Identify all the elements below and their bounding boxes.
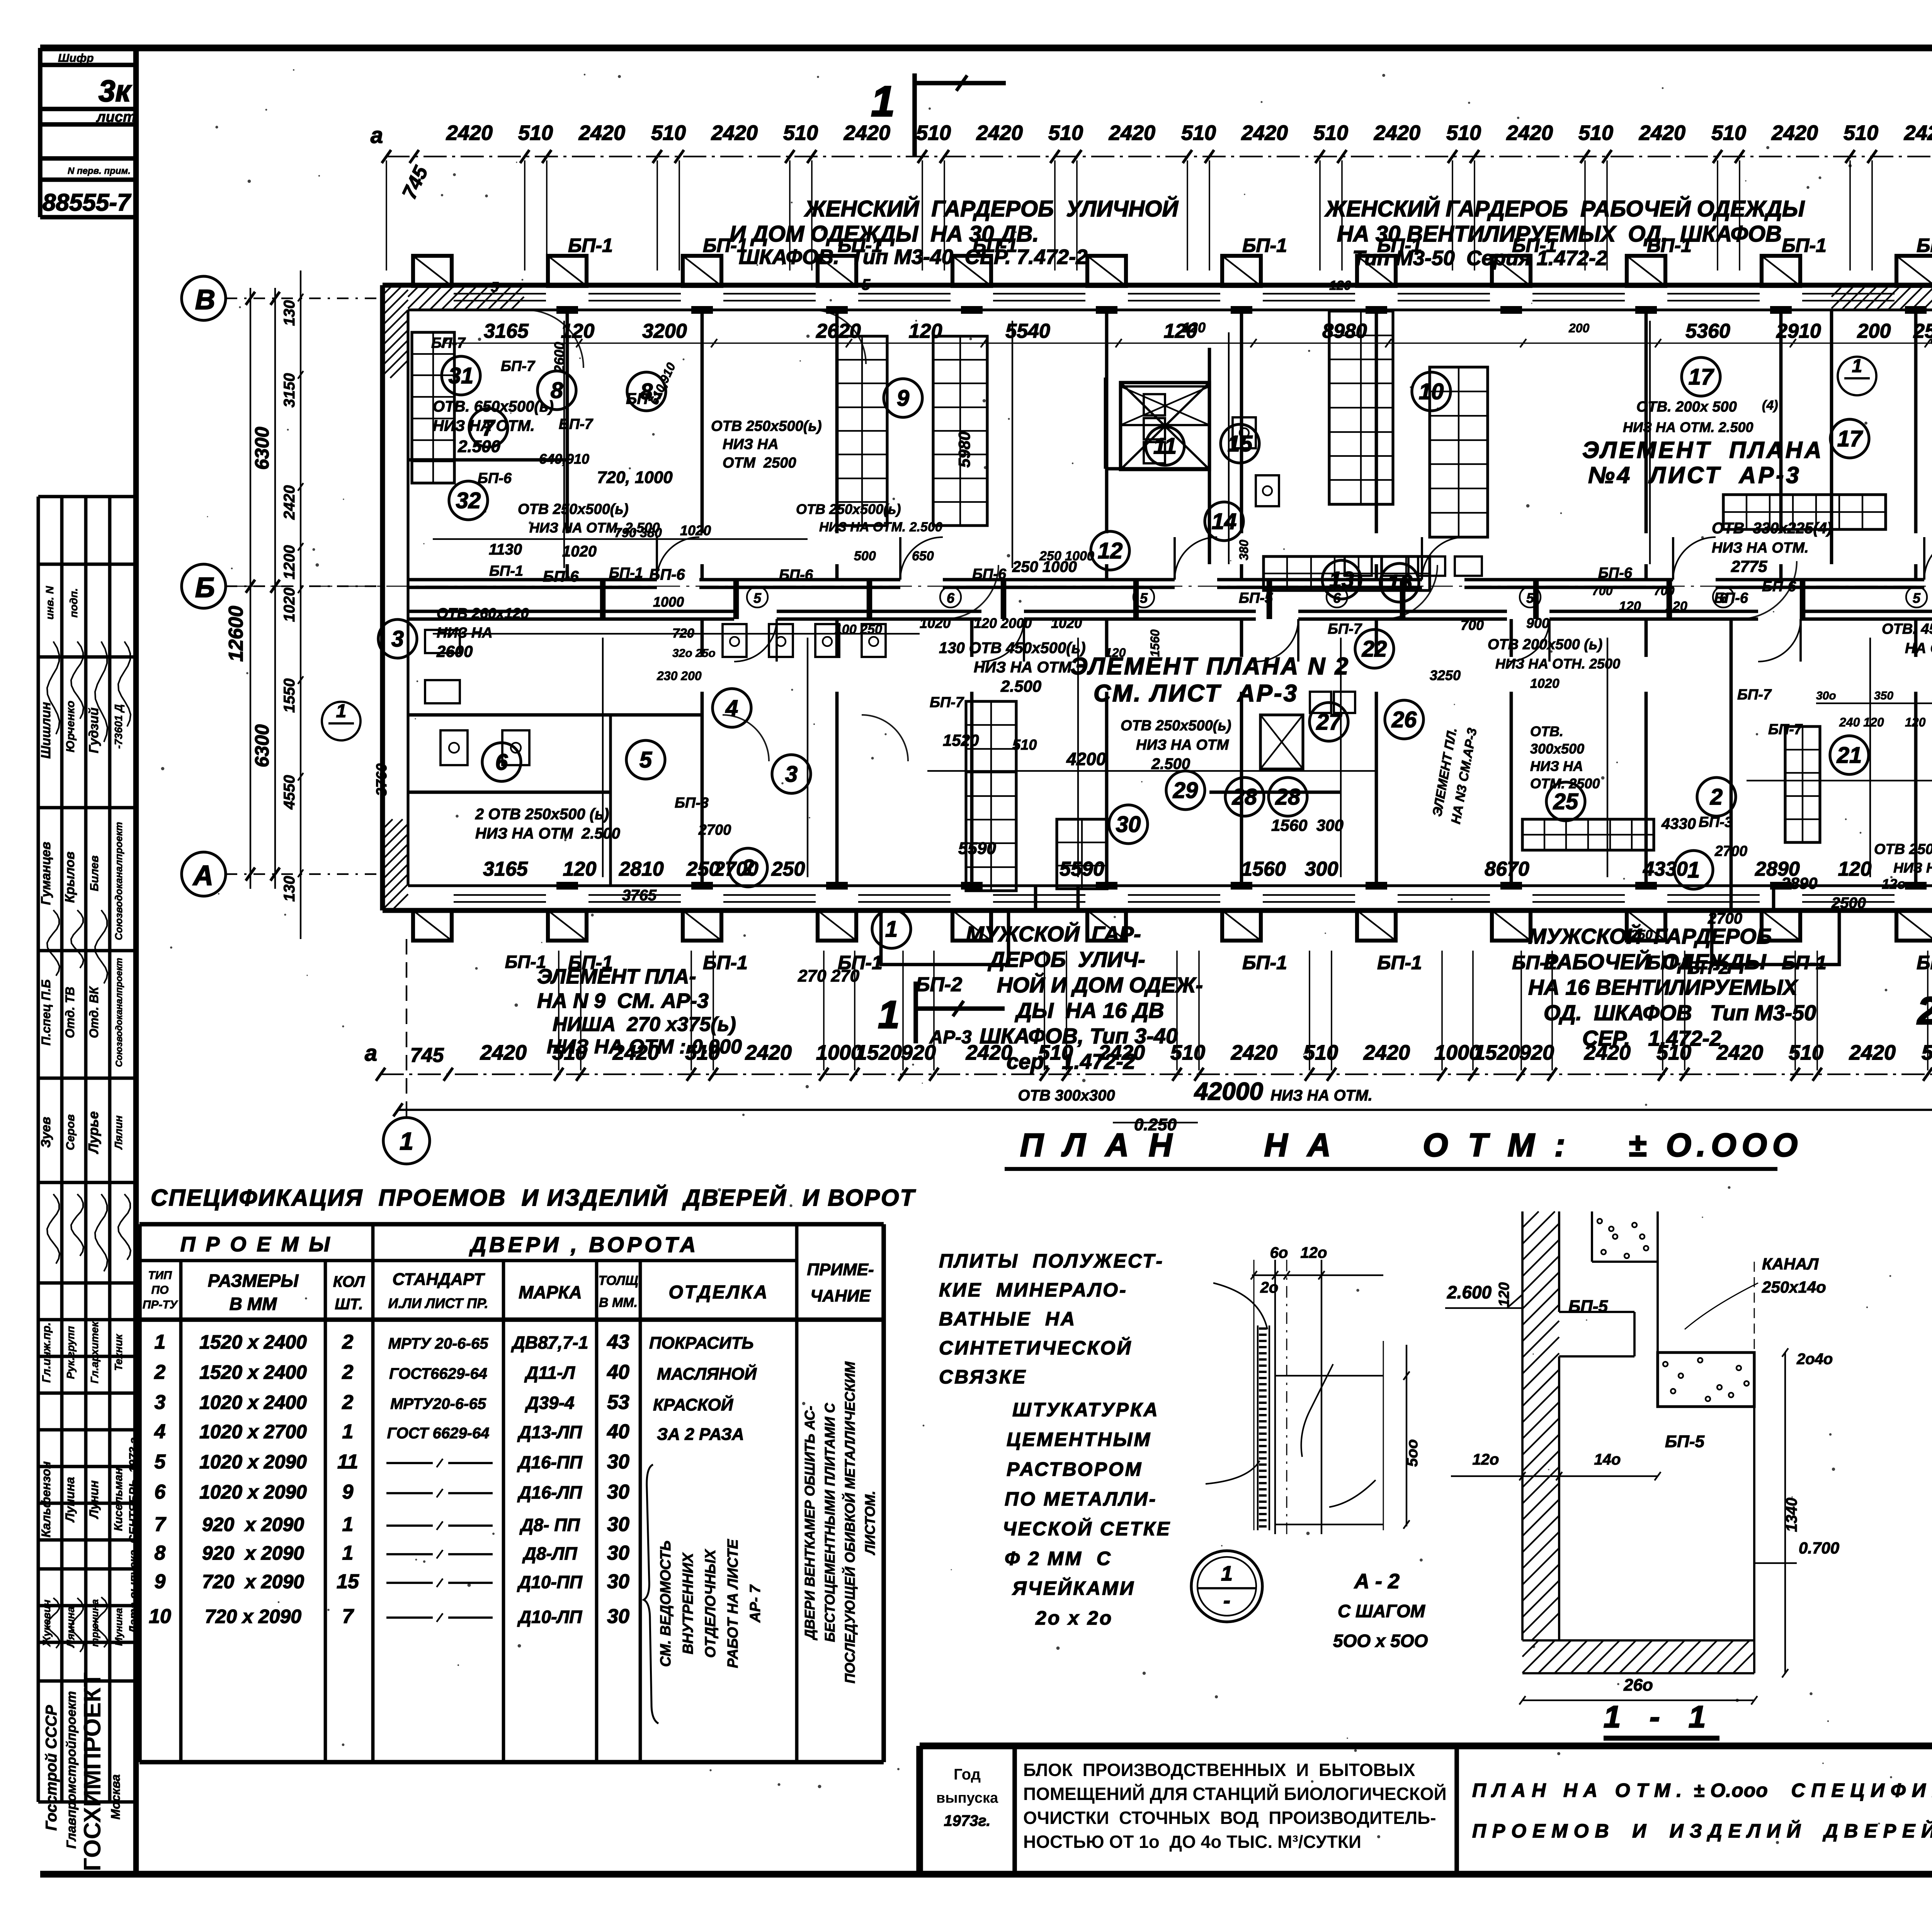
- svg-text:15: 15: [337, 1570, 359, 1593]
- svg-text:3165: 3165: [484, 320, 529, 342]
- svg-text:НИША 270 х375(ь): НИША 270 х375(ь): [553, 1013, 736, 1036]
- svg-text:СЕР. 1.472-2: СЕР. 1.472-2: [1582, 1026, 1721, 1050]
- svg-text:РАБОЧЕЙ ОДЕЖДЫ: РАБОЧЕЙ ОДЕЖДЫ: [1544, 949, 1767, 974]
- svg-text:1560: 1560: [1148, 629, 1162, 657]
- svg-text:1130: 1130: [489, 541, 522, 558]
- svg-text:Д16-ПП: Д16-ПП: [517, 1452, 583, 1472]
- svg-text:2420: 2420: [1506, 121, 1553, 145]
- axis circle V: [182, 276, 226, 320]
- svg-text:2: 2: [1710, 784, 1723, 810]
- svg-text:БП-7: БП-7: [559, 416, 594, 432]
- svg-text:1550: 1550: [281, 679, 298, 713]
- svg-text:Главпромстройпроект: Главпромстройпроект: [64, 1691, 79, 1849]
- svg-text:2420: 2420: [1716, 1041, 1763, 1064]
- svg-text:1: 1: [871, 78, 895, 125]
- section 1-1 pier speckled: [1658, 1353, 1754, 1407]
- svg-text:3: 3: [155, 1391, 166, 1414]
- svg-text:30: 30: [1116, 812, 1141, 837]
- svg-text:5: 5: [1140, 590, 1148, 606]
- svg-text:13: 13: [1329, 567, 1354, 592]
- svg-text:Д10-ЛП: Д10-ЛП: [517, 1607, 582, 1627]
- svg-text:НА 30 ВЕНТИЛИРУЕМЫХ ОД. ШКАФ: НА 30 ВЕНТИЛИРУЕМЫХ ОД. ШКАФОВ: [1337, 221, 1782, 247]
- svg-text:МРТУ20-6-65: МРТУ20-6-65: [390, 1395, 486, 1412]
- corner blobs at partitions: [556, 306, 578, 314]
- svg-text:40: 40: [607, 1361, 629, 1383]
- entrance tambour right: [1712, 910, 1839, 965]
- svg-text:250: 250: [771, 858, 805, 880]
- svg-text:6300: 6300: [251, 427, 273, 470]
- svg-text:НИЗ НА ОТМ 2.500: НИЗ НА ОТМ 2.500: [475, 825, 620, 842]
- svg-text:1020: 1020: [281, 588, 298, 622]
- svg-text:120: 120: [1665, 599, 1687, 614]
- svg-text:2420: 2420: [281, 485, 298, 520]
- locker grid room 30 b: [1057, 819, 1107, 889]
- svg-text:Мунина: Мунина: [113, 1608, 124, 1646]
- svg-text:Юрченко: Юрченко: [64, 701, 77, 752]
- svg-text:2.600: 2.600: [1447, 1282, 1492, 1302]
- svg-text:10: 10: [1419, 379, 1444, 404]
- svg-text:1560 300: 1560 300: [1271, 816, 1344, 834]
- svg-text:10: 10: [149, 1605, 171, 1628]
- svg-text:Ф 2 ММ С: Ф 2 ММ С: [1005, 1548, 1112, 1569]
- svg-text:БП-7: БП-7: [431, 335, 466, 351]
- svg-text:2700: 2700: [698, 822, 731, 838]
- svg-text:0.700: 0.700: [1799, 1539, 1839, 1557]
- svg-text:ШТУКАТУРКА: ШТУКАТУРКА: [1012, 1399, 1159, 1421]
- svg-text:200: 200: [1857, 320, 1891, 342]
- detail node circle 1: [1191, 1551, 1262, 1622]
- svg-text:П.спец П.Б: П.спец П.Б: [39, 979, 53, 1045]
- svg-text:120: 120: [1496, 1282, 1512, 1307]
- section 1-1 wall: [1521, 1211, 1524, 1640]
- svg-text:5: 5: [155, 1451, 166, 1473]
- svg-text:1020: 1020: [920, 615, 951, 631]
- svg-text:ОТВ 250х500(ь): ОТВ 250х500(ь): [1121, 718, 1231, 734]
- svg-text:250 1000: 250 1000: [1039, 549, 1094, 563]
- corridor upper wall: [408, 578, 657, 582]
- svg-text:1: 1: [342, 1421, 354, 1443]
- svg-text:8980: 8980: [1322, 320, 1367, 342]
- svg-text:510: 510: [518, 121, 553, 145]
- svg-text:43: 43: [607, 1331, 629, 1353]
- svg-text:БП-6: БП-6: [478, 470, 512, 487]
- svg-text:БП-5: БП-5: [1239, 590, 1273, 606]
- svg-text:900: 900: [1526, 615, 1549, 631]
- svg-text:Год: Год: [954, 1766, 981, 1783]
- svg-text:Д16-ЛП: Д16-ЛП: [517, 1482, 582, 1502]
- room circle 5: [626, 740, 665, 779]
- shower stalls room 27: [1310, 692, 1331, 713]
- svg-text:А: А: [192, 860, 213, 891]
- svg-text:ОТВ 260х120: ОТВ 260х120: [437, 606, 529, 622]
- left dim chain 6300/6300: [274, 288, 276, 889]
- svg-text:МУЖСКОЙ ГАР-: МУЖСКОЙ ГАР-: [966, 922, 1141, 946]
- svg-text:270 270: 270 270: [798, 966, 860, 985]
- svg-text:7: 7: [155, 1513, 167, 1536]
- svg-text:ШКАФОВ, Тип 3-40: ШКАФОВ, Тип 3-40: [980, 1024, 1178, 1048]
- locker grid room 30: [966, 701, 1016, 891]
- room circle 4: [713, 689, 751, 727]
- room circle 1: [1674, 851, 1713, 889]
- svg-text:9: 9: [342, 1481, 354, 1503]
- svg-text:230 200: 230 200: [656, 669, 702, 683]
- svg-text:3250: 3250: [1430, 667, 1461, 683]
- benches room 25: [1522, 819, 1654, 850]
- svg-text:14о: 14о: [1594, 1451, 1621, 1468]
- room circle 21: [1830, 736, 1869, 774]
- svg-text:120: 120: [1329, 278, 1351, 293]
- svg-text:2775: 2775: [1731, 557, 1767, 575]
- svg-text:300: 300: [1305, 858, 1338, 880]
- svg-text:3к: 3к: [99, 74, 132, 108]
- sheet frame left border: [133, 48, 139, 1874]
- svg-text:510: 510: [1048, 121, 1083, 145]
- svg-text:ПРИМЕ-: ПРИМЕ-: [807, 1260, 874, 1279]
- svg-text:130: 130: [281, 876, 298, 902]
- room circle 26: [1385, 700, 1423, 739]
- svg-text:В ММ.: В ММ.: [599, 1295, 638, 1310]
- svg-text:НИЗ НА ОТМ.: НИЗ НА ОТМ.: [974, 659, 1076, 676]
- wall stubs along corridor: [600, 580, 606, 619]
- svg-text:8670: 8670: [1485, 858, 1529, 880]
- svg-text:Союзводоканалпроект: Союзводоканалпроект: [113, 822, 124, 940]
- svg-text:2600: 2600: [436, 642, 473, 660]
- svg-text:ОТМ 2500: ОТМ 2500: [723, 455, 796, 471]
- svg-text:1020 х 2700: 1020 х 2700: [199, 1421, 307, 1443]
- axis circle B: [182, 564, 226, 608]
- svg-text:Лунина: Лунина: [63, 1477, 77, 1523]
- top wall piers: [413, 256, 452, 286]
- room circle 29: [1166, 771, 1205, 810]
- room circle 10: [1412, 372, 1451, 411]
- svg-text:лист: лист: [96, 109, 136, 125]
- room circle 2: [1697, 778, 1736, 816]
- svg-text:7: 7: [342, 1605, 354, 1628]
- svg-text:НИЗ НА ОТМ: НИЗ НА ОТМ: [1136, 737, 1229, 753]
- svg-text:5: 5: [862, 276, 871, 293]
- signature squiggles left column: [47, 641, 60, 734]
- svg-text:2.500: 2.500: [457, 437, 501, 456]
- top dimension chain: [386, 156, 1932, 157]
- room circle 13: [1322, 560, 1361, 599]
- svg-text:30: 30: [607, 1513, 629, 1536]
- svg-text:5: 5: [491, 279, 499, 295]
- svg-text:32: 32: [456, 488, 481, 513]
- svg-text:12600: 12600: [225, 606, 247, 662]
- svg-text:1: 1: [885, 917, 898, 942]
- svg-text:№4 ЛИСТ АР-3: №4 ЛИСТ АР-3: [1588, 462, 1801, 488]
- svg-text:Москва: Москва: [109, 1774, 122, 1820]
- svg-text:1: 1: [1687, 857, 1700, 883]
- svg-text:ЦЕМЕНТНЫМ: ЦЕМЕНТНЫМ: [1007, 1429, 1151, 1450]
- svg-text:ОТВ. 450х500 (ь) НИЗ: ОТВ. 450х500 (ь) НИЗ: [1882, 621, 1932, 637]
- svg-text:ЖЕНСКИЙ ГАРДЕРОБ РАБОЧЕЙ ОДЕЖ: ЖЕНСКИЙ ГАРДЕРОБ РАБОЧЕЙ ОДЕЖДЫ: [1324, 196, 1805, 221]
- svg-text:510: 510: [1012, 737, 1037, 753]
- sanitary fixtures rooms 3-4: [723, 624, 747, 657]
- svg-text:П Л А Н Н А О Т М . ± О.о: П Л А Н Н А О Т М . ± О.ооо С П Е Ц И Ф …: [1472, 1780, 1932, 1801]
- svg-text:510: 510: [783, 121, 818, 145]
- svg-text:510: 510: [1313, 121, 1348, 145]
- svg-text:700: 700: [1654, 584, 1675, 598]
- svg-text:250: 250: [1630, 927, 1653, 942]
- svg-text:17: 17: [1837, 426, 1863, 451]
- svg-text:2 ОТВ 250х500 (ь): 2 ОТВ 250х500 (ь): [475, 806, 609, 823]
- small interior ticks rows: [441, 339, 447, 347]
- svg-text:1: 1: [155, 1331, 166, 1353]
- svg-text:НИЗ НА ОТМ.: НИЗ НА ОТМ.: [1712, 540, 1809, 556]
- svg-text:НИЗ НА ОТН. 2500: НИЗ НА ОТН. 2500: [1495, 656, 1620, 672]
- svg-text:МАРКА: МАРКА: [519, 1282, 582, 1302]
- left stamp column grid: [37, 497, 40, 1802]
- svg-text:НИЗ НА: НИЗ НА: [437, 625, 493, 641]
- spec table frame: [139, 1222, 884, 1227]
- svg-text:1: 1: [342, 1542, 354, 1564]
- svg-text:30: 30: [607, 1542, 629, 1564]
- svg-text:720 х 2090: 720 х 2090: [202, 1571, 304, 1592]
- svg-text:300х500: 300х500: [1530, 741, 1584, 757]
- svg-text:БП-1: БП-1: [703, 952, 748, 973]
- svg-text:120: 120: [1905, 715, 1926, 729]
- svg-text:6: 6: [155, 1481, 166, 1503]
- svg-text:ШКАФОВ. Тип М3-40 СЕР. 7.472: ШКАФОВ. Тип М3-40 СЕР. 7.472-2: [739, 245, 1087, 269]
- svg-text:120: 120: [561, 320, 595, 342]
- svg-text:5590: 5590: [958, 839, 996, 858]
- svg-text:МАСЛЯНОЙ: МАСЛЯНОЙ: [657, 1364, 757, 1383]
- svg-text:БП-6: БП-6: [1598, 565, 1633, 581]
- svg-text:Лурье: Лурье: [85, 1111, 101, 1155]
- svg-text:БП-6: БП-6: [543, 568, 579, 585]
- svg-text:2910: 2910: [1776, 320, 1821, 342]
- svg-text:СИНТЕТИЧЕСКОЙ: СИНТЕТИЧЕСКОЙ: [939, 1337, 1132, 1359]
- svg-text:250х14о: 250х14о: [1762, 1278, 1826, 1296]
- svg-text:22: 22: [1362, 636, 1387, 662]
- svg-text:С ШАГОМ: С ШАГОМ: [1338, 1601, 1426, 1621]
- svg-text:920: 920: [1519, 1041, 1554, 1064]
- svg-text:26о: 26о: [1623, 1676, 1653, 1695]
- room circle 6: [482, 743, 521, 781]
- svg-text:АР- 7: АР- 7: [747, 1584, 764, 1623]
- room circle 11: [1146, 427, 1184, 465]
- svg-text:6300: 6300: [251, 724, 273, 767]
- svg-text:4330: 4330: [1643, 858, 1688, 880]
- svg-text:5ОО х 5ОО: 5ОО х 5ОО: [1333, 1631, 1428, 1651]
- element plan marker 1b: [1838, 357, 1876, 395]
- svg-text:5: 5: [1913, 590, 1921, 606]
- svg-text:БП-5: БП-5: [1568, 1297, 1608, 1316]
- svg-text:510: 510: [1844, 121, 1878, 145]
- svg-text:2: 2: [1917, 989, 1932, 1033]
- svg-text:БП-7: БП-7: [501, 358, 536, 374]
- svg-text:1: 1: [400, 1127, 413, 1155]
- svg-text:9: 9: [155, 1570, 166, 1593]
- svg-text:ЭЛЕМЕНТ ПЛАНА: ЭЛЕМЕНТ ПЛАНА: [1582, 437, 1824, 463]
- svg-text:9: 9: [897, 386, 909, 411]
- locker grid room 10 a: [1329, 311, 1393, 504]
- overall 42000 line: [398, 1109, 1932, 1111]
- svg-text:1: 1: [1221, 1562, 1233, 1585]
- svg-text:ПЛИТЫ ПОЛУЖЕСТ-: ПЛИТЫ ПОЛУЖЕСТ-: [939, 1250, 1164, 1272]
- svg-text:510: 510: [1711, 121, 1746, 145]
- svg-text:ПОСЛЕДУЮЩЕЙ ОБИВКОЙ МЕТАЛЛИЧЕС: ПОСЛЕДУЮЩЕЙ ОБИВКОЙ МЕТАЛЛИЧЕСКИМ: [842, 1361, 858, 1684]
- section 1-1 bottom slab: [1522, 1639, 1754, 1642]
- svg-text:2890: 2890: [1781, 874, 1817, 892]
- svg-text:2700: 2700: [713, 858, 759, 880]
- interior dim lines upper rooms: [433, 538, 808, 540]
- svg-text:НИЗ НА ОТМ: НИЗ НА ОТМ: [1893, 860, 1932, 876]
- svg-text:2620: 2620: [816, 320, 861, 342]
- scan speckles: [969, 338, 972, 340]
- svg-text:2700: 2700: [1714, 843, 1748, 859]
- svg-text:40: 40: [607, 1421, 629, 1443]
- svg-text:700: 700: [1592, 584, 1613, 598]
- svg-text:ЛИСТОМ.: ЛИСТОМ.: [862, 1491, 878, 1556]
- svg-text:11: 11: [337, 1451, 358, 1473]
- svg-text:Гл.инж.пр.: Гл.инж.пр.: [40, 1322, 53, 1383]
- svg-text:2.500: 2.500: [1000, 677, 1041, 695]
- locker grid room 10 b: [1430, 367, 1488, 537]
- svg-text:БП-1: БП-1: [568, 235, 613, 256]
- svg-text:3: 3: [391, 626, 404, 652]
- locker grid room 9 b: [933, 336, 987, 526]
- axis circle A: [182, 852, 226, 896]
- room circle 3: [378, 619, 417, 658]
- svg-text:12: 12: [1098, 538, 1123, 563]
- svg-text:Лялин: Лялин: [112, 1115, 124, 1150]
- svg-text:120: 120: [563, 858, 597, 880]
- svg-text:200: 200: [1568, 321, 1590, 335]
- svg-text:21: 21: [1837, 743, 1862, 768]
- svg-text:700: 700: [1461, 617, 1484, 633]
- axis dash-dot through corridor: [232, 586, 1932, 587]
- svg-text:КАНАЛ: КАНАЛ: [1762, 1255, 1819, 1273]
- svg-text:ОТМ. 2500: ОТМ. 2500: [1530, 776, 1600, 791]
- svg-text:53: 53: [607, 1391, 629, 1414]
- svg-text:БП-7: БП-7: [1737, 687, 1772, 703]
- room circle 17: [1830, 419, 1869, 458]
- svg-text:выпуска: выпуска: [936, 1790, 998, 1806]
- svg-text:5оо: 5оо: [1404, 1439, 1421, 1467]
- svg-text:6: 6: [947, 590, 955, 606]
- svg-text:6о: 6о: [1270, 1244, 1288, 1261]
- svg-text:Шифр: Шифр: [58, 52, 94, 65]
- svg-text:БП-3: БП-3: [1699, 814, 1733, 830]
- svg-text:НА 16 ВЕНТИЛИРУЕМЫХ: НА 16 ВЕНТИЛИРУЕМЫХ: [1528, 975, 1799, 999]
- svg-text:НА ОТМ. 2.500: НА ОТМ. 2.500: [1905, 640, 1932, 657]
- svg-text:3: 3: [785, 762, 798, 787]
- svg-text:1973г.: 1973г.: [944, 1812, 991, 1829]
- svg-text:Рук.групп: Рук.групп: [65, 1326, 77, 1379]
- svg-text:ДВ87,7-1: ДВ87,7-1: [511, 1332, 588, 1353]
- svg-text:88555-7: 88555-7: [43, 189, 131, 216]
- svg-text:ОТВ 250х500(ь): ОТВ 250х500(ь): [1874, 841, 1932, 857]
- svg-text:2420: 2420: [1771, 121, 1818, 145]
- room circle 1: [872, 910, 911, 948]
- sheet frame bottom border: [40, 1871, 1932, 1877]
- svg-text:2: 2: [342, 1391, 354, 1414]
- wall hatching: [383, 285, 393, 295]
- svg-text:17: 17: [1689, 364, 1714, 390]
- room circle 32: [449, 481, 488, 520]
- svg-text:4200: 4200: [1066, 749, 1106, 769]
- svg-text:Отд. ТВ: Отд. ТВ: [63, 987, 77, 1038]
- svg-text:Д11-Л: Д11-Л: [524, 1363, 575, 1383]
- svg-text:2420: 2420: [1109, 121, 1155, 145]
- svg-text:сер. 1.472-2: сер. 1.472-2: [1007, 1049, 1135, 1074]
- upper band partitions: [566, 310, 569, 533]
- svg-text:30о: 30о: [1816, 689, 1836, 702]
- svg-text:500: 500: [854, 549, 876, 563]
- room circle 2: [729, 848, 767, 887]
- svg-text:5360: 5360: [1685, 320, 1730, 342]
- bench grid corridor: [1264, 556, 1430, 590]
- svg-text:3760: 3760: [374, 763, 390, 796]
- svg-text:5: 5: [639, 747, 652, 772]
- svg-text:745: 745: [410, 1044, 444, 1067]
- svg-text:СТАНДАРТ: СТАНДАРТ: [393, 1270, 485, 1289]
- svg-text:350: 350: [1874, 689, 1893, 702]
- svg-text:НИЗ НА: НИЗ НА: [723, 436, 779, 453]
- svg-text:Лунин: Лунин: [87, 1480, 101, 1519]
- svg-text:120: 120: [1182, 320, 1206, 335]
- title block frame: [920, 1742, 1932, 1749]
- svg-text:ТИП: ТИП: [148, 1269, 172, 1282]
- svg-text:25: 25: [1553, 789, 1578, 814]
- svg-text:120 2000: 120 2000: [974, 615, 1032, 631]
- element plan marker 1: [322, 702, 361, 740]
- svg-text:ОТДЕЛОЧНЫХ: ОТДЕЛОЧНЫХ: [702, 1548, 719, 1658]
- entrance tambour left: [881, 910, 1009, 965]
- svg-text:ОТВ. 200х 500: ОТВ. 200х 500: [1636, 399, 1737, 415]
- sub walls: [408, 791, 611, 794]
- corridor lower wall: [408, 610, 734, 613]
- svg-text:510: 510: [1181, 121, 1216, 145]
- svg-text:1520 х 2400: 1520 х 2400: [199, 1361, 307, 1383]
- svg-text:ПО МЕТАЛЛИ-: ПО МЕТАЛЛИ-: [1005, 1488, 1157, 1510]
- svg-text:ГОСХИМПРОЕКТ: ГОСХИМПРОЕКТ: [79, 1672, 106, 1871]
- svg-text:510: 510: [1446, 121, 1481, 145]
- svg-text:БП-1: БП-1: [1917, 235, 1932, 256]
- svg-text:1: 1: [336, 701, 347, 721]
- svg-text:1: 1: [342, 1513, 354, 1536]
- svg-text:ПОКРАСИТЬ: ПОКРАСИТЬ: [649, 1334, 754, 1353]
- shaft with X room 11: [1121, 383, 1209, 470]
- svg-text:Союзводоканалпроект: Союзводоканалпроект: [114, 958, 124, 1067]
- svg-text:1020 х 2400: 1020 х 2400: [199, 1392, 307, 1413]
- svg-text:БП-1: БП-1: [609, 565, 643, 581]
- svg-text:1020 х 2090: 1020 х 2090: [199, 1451, 307, 1473]
- svg-text:БП-6: БП-6: [972, 566, 1007, 582]
- svg-text:БП-2: БП-2: [916, 973, 963, 996]
- shower stalls room 11: [1144, 394, 1165, 415]
- svg-text:Техник: Техник: [112, 1334, 124, 1371]
- svg-text:Билев: Билев: [88, 856, 101, 891]
- svg-text:БП-6: БП-6: [779, 567, 813, 583]
- svg-text:5540: 5540: [1005, 320, 1050, 342]
- svg-text:ЧАНИЕ: ЧАНИЕ: [810, 1286, 871, 1305]
- svg-text:Б: Б: [195, 572, 215, 603]
- interior dim lines lower rooms: [433, 633, 920, 635]
- svg-text:1020: 1020: [1051, 615, 1082, 631]
- svg-text:130: 130: [281, 300, 298, 326]
- svg-text:2500: 2500: [1831, 895, 1866, 912]
- svg-text:240 120: 240 120: [1839, 715, 1884, 729]
- svg-text:a: a: [365, 1041, 377, 1066]
- svg-text:ДЕРОБ УЛИЧ-: ДЕРОБ УЛИЧ-: [988, 947, 1145, 971]
- svg-text:1020 х 2090: 1020 х 2090: [199, 1481, 307, 1503]
- svg-text:1020: 1020: [1530, 676, 1560, 691]
- svg-text:КРАСКОЙ: КРАСКОЙ: [653, 1395, 734, 1414]
- sink row room 13/16: [1345, 556, 1372, 576]
